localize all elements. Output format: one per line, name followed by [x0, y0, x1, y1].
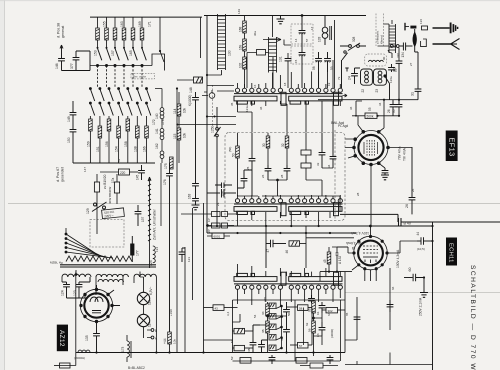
- cap 4,5: [308, 295, 315, 303]
- capacitor 31: [415, 52, 422, 100]
- antenna symbol fork: [433, 39, 460, 50]
- svg-text:d. Pos.38: d. Pos.38: [57, 23, 61, 38]
- IF box small boxes: [301, 133, 311, 180]
- mains rating box 420mA 200W: [102, 208, 125, 219]
- svg-text:B 40: B 40: [404, 222, 411, 226]
- rail x161 down: [160, 163, 162, 226]
- svg-text:19: 19: [327, 82, 331, 86]
- svg-text:66: 66: [391, 286, 395, 290]
- svg-text:26: 26: [387, 109, 391, 113]
- svg-text:10k: 10k: [183, 107, 187, 113]
- AF wires h: [253, 308, 322, 357]
- svg-text:23: 23: [375, 89, 379, 93]
- svg-text:40W BB30W: 40W BB30W: [108, 187, 112, 204]
- AF box 302: [322, 308, 345, 313]
- resistor 46 (100k): [289, 241, 306, 246]
- svg-text:00: 00: [382, 56, 386, 60]
- resistor chain 140/141/142: [155, 89, 164, 164]
- ECH11 internals: [363, 246, 378, 263]
- svg-text:320: 320: [396, 53, 400, 58]
- band switch upper: value labels: [94, 21, 152, 56]
- svg-text:102: 102: [239, 62, 243, 68]
- svg-text:(10,5): (10,5): [417, 247, 425, 251]
- svg-text:Ber. weite: Ber. weite: [133, 75, 147, 79]
- AF cap 50: [283, 302, 290, 318]
- svg-text:6001: 6001: [214, 235, 221, 239]
- resistor 40W: [94, 174, 99, 202]
- svg-text:55: 55: [368, 107, 372, 111]
- svg-text:151: 151: [96, 146, 100, 152]
- wire y271.6: [320, 272, 352, 281]
- svg-text:26: 26: [411, 188, 415, 192]
- IF box cap f: [330, 133, 337, 168]
- tube label box AZ12: [57, 325, 68, 352]
- svg-text:138: 138: [133, 146, 137, 152]
- output terminals A/B: [147, 329, 154, 339]
- svg-text:153: 153: [94, 50, 98, 56]
- RF wiring: [247, 15, 335, 88]
- svg-text:56: 56: [308, 328, 312, 332]
- svg-text:30: 30: [262, 143, 266, 147]
- bottom rail y361: [233, 360, 341, 362]
- svg-text:126a: 126a: [389, 76, 393, 83]
- svg-text:6,3V~: 6,3V~: [149, 286, 153, 295]
- svg-text:zu B19/20: zu B19/20: [103, 174, 107, 189]
- svg-text:32: 32: [281, 143, 285, 147]
- svg-text:124: 124: [61, 290, 65, 296]
- capacitor 149: [70, 101, 77, 129]
- EF13 internal electrodes: [364, 140, 378, 156]
- svg-text:136: 136: [419, 19, 423, 24]
- svg-text:2P: 2P: [207, 229, 211, 233]
- switch 328: [340, 43, 366, 51]
- dial lamp 117: [137, 314, 149, 326]
- svg-text:24: 24: [348, 76, 352, 80]
- svg-text:500k: 500k: [367, 114, 374, 118]
- svg-text:176: 176: [163, 179, 167, 185]
- svg-text:137: 137: [141, 216, 145, 222]
- capacitor 146: [58, 59, 65, 71]
- svg-text:34: 34: [378, 102, 382, 106]
- switch 126a: [384, 75, 390, 100]
- svg-text:17a: 17a: [117, 159, 121, 164]
- mains cable fan wires: [65, 202, 113, 258]
- svg-text:110V 4,3mA: 110V 4,3mA: [350, 231, 369, 235]
- AF box 53: [233, 328, 254, 333]
- strip1 upper stubs: [238, 57, 341, 88]
- capacitor 40 in rail: [398, 214, 500, 226]
- svg-text:48: 48: [247, 348, 251, 352]
- svg-text:133: 133: [318, 36, 322, 42]
- band switch upper: column 1: [96, 17, 102, 67]
- svg-text:165: 165: [129, 50, 133, 56]
- svg-text:1P: 1P: [207, 218, 211, 222]
- svg-text:63: 63: [316, 333, 320, 337]
- wire x356: [356, 101, 362, 116]
- capacitor 124: [62, 282, 70, 298]
- terminal strip 3 (socket strip bottom, mirrored): [234, 272, 343, 289]
- IF box resistor 20,2: [266, 133, 270, 165]
- capacitor 327: [396, 61, 403, 104]
- cap 58: [315, 52, 322, 72]
- resistor 55 (500k): [352, 113, 399, 118]
- svg-text:36: 36: [349, 106, 353, 110]
- band switch lower bank columns: [98, 66, 143, 89]
- svg-text:65: 65: [345, 312, 349, 316]
- EF13 pin wires: [345, 100, 412, 226]
- dashed note 1.Netzant: [376, 14, 384, 47]
- antenna ladder coil 130: [207, 14, 226, 75]
- svg-text:TIV 4mA: TIV 4mA: [403, 147, 407, 161]
- svg-text:166: 166: [143, 146, 147, 152]
- generator input arrow note: [57, 23, 66, 58]
- svg-text:145: 145: [136, 174, 140, 180]
- box 6001 lower: [207, 233, 230, 239]
- svg-text:+330: +330: [169, 309, 173, 316]
- IF can dashed box top: [365, 54, 387, 66]
- svg-text:55: 55: [308, 308, 312, 312]
- band switch upper: right hook contact: [147, 17, 201, 70]
- rail drop x207: [206, 16, 208, 234]
- band switch bank upper: bus wire: [90, 16, 202, 18]
- svg-text:45: 45: [323, 259, 327, 263]
- RF dashed box 57: [291, 24, 313, 44]
- wire to bank bottom: [62, 66, 91, 71]
- box (220): [100, 169, 138, 175]
- svg-text:(47): (47): [221, 191, 225, 196]
- cap 47: [266, 226, 286, 268]
- svg-text:26: 26: [405, 204, 409, 208]
- svg-text:177: 177: [136, 250, 140, 256]
- svg-text:150: 150: [67, 137, 71, 143]
- svg-text:18: 18: [283, 82, 287, 86]
- svg-text:20: 20: [394, 68, 398, 72]
- right vertical rail: [432, 222, 434, 370]
- svg-text:134: 134: [155, 247, 159, 252]
- IF box bottom wires: [250, 168, 340, 212]
- switch 329: [342, 51, 348, 88]
- svg-text:131: 131: [279, 56, 283, 62]
- svg-text:149: 149: [237, 9, 241, 14]
- cap 123a: [179, 248, 186, 262]
- terminal strip 2 (socket strip middle): [234, 199, 343, 216]
- svg-text:50: 50: [232, 153, 236, 157]
- lower bank column 6: [136, 88, 142, 164]
- svg-text:147: 147: [83, 167, 87, 172]
- AF box 52: [233, 345, 254, 350]
- antenna feed black block: [410, 26, 416, 29]
- svg-text:328: 328: [352, 36, 356, 42]
- lower bank column 2: [98, 88, 104, 164]
- svg-text:31: 31: [411, 92, 415, 96]
- svg-text:a55: a55: [263, 297, 267, 302]
- svg-text:62: 62: [305, 322, 309, 326]
- svg-text:129: 129: [86, 208, 90, 214]
- lightning arrester: [413, 29, 417, 52]
- wire y124.5: [177, 124, 236, 126]
- resistor +44: [168, 332, 172, 353]
- svg-text:125b: 125b: [211, 125, 215, 133]
- tuning arrow: [263, 38, 281, 42]
- svg-text:Klemd.: Klemd.: [380, 34, 384, 44]
- bottom long rail: [76, 352, 345, 354]
- svg-text:149: 149: [67, 116, 71, 122]
- svg-text:26: 26: [261, 174, 265, 178]
- terminal strip 1 (socket strip top): [234, 88, 343, 105]
- svg-text:141: 141: [155, 128, 159, 134]
- bottom edge box: [300, 363, 338, 368]
- resistor 175 on bus: [170, 157, 174, 169]
- cathode cap 7u6: [381, 168, 389, 180]
- svg-text:115: 115: [173, 133, 177, 139]
- svg-text:16: 16: [253, 84, 257, 88]
- svg-text:MZBL Hg: MZBL Hg: [50, 261, 63, 265]
- B+ rail y214: [340, 213, 398, 215]
- page fold faint line B: [345, 292, 500, 294]
- svg-text:158: 158: [124, 141, 128, 147]
- svg-text:33: 33: [316, 162, 320, 166]
- wire y238: [306, 226, 354, 268]
- B+ rail y226: [207, 225, 433, 227]
- svg-text:(300Ω): (300Ω): [330, 329, 334, 338]
- svg-text:171: 171: [148, 21, 152, 27]
- winding taps: [62, 270, 156, 353]
- resistor 148: [177, 77, 203, 83]
- IF small labels: [246, 162, 331, 178]
- strip3 lower stubs: [238, 289, 341, 307]
- wires from antenna block down: [378, 46, 400, 61]
- tube label box EF13: [446, 131, 458, 162]
- ECH11 pin wires: [332, 225, 417, 281]
- bottom cap row 2: [327, 355, 334, 364]
- left long rails: [177, 88, 204, 353]
- svg-text:117: 117: [148, 322, 152, 327]
- svg-text:100V 4,3mA: 100V 4,3mA: [396, 249, 400, 268]
- B+ rail y233: [207, 232, 356, 234]
- coil 133 with core: [322, 16, 331, 46]
- resistor 115 (10k): [177, 128, 181, 163]
- switch 125b: [214, 107, 221, 226]
- capacitor 26 (anode): [409, 147, 416, 214]
- svg-text:57: 57: [305, 38, 309, 42]
- capacitor 35: [396, 105, 403, 116]
- strip2 lower stubs: [238, 212, 331, 226]
- AF cap 63: [319, 322, 326, 336]
- AF cap 48: [250, 325, 260, 353]
- svg-text:22: 22: [361, 89, 365, 93]
- lower bank column 1: [89, 88, 95, 164]
- svg-text:172: 172: [152, 119, 156, 125]
- svg-text:A 132: A 132: [338, 256, 342, 264]
- capacitor 137: [135, 205, 142, 226]
- band switch upper: bottom bus: [90, 65, 147, 67]
- svg-text:73: 73: [337, 76, 341, 80]
- capacitor 135: [93, 334, 100, 353]
- coil on cable: [153, 246, 156, 263]
- antenna terminal T: [405, 23, 409, 31]
- svg-text:B: B: [155, 329, 157, 333]
- svg-text:377: 377: [70, 63, 74, 69]
- strip3 peg risers: [238, 264, 287, 276]
- capacitor 176: [166, 163, 173, 332]
- rectifier tube AZ12 circle: [80, 289, 112, 321]
- svg-text:302: 302: [328, 309, 333, 313]
- svg-text:168: 168: [239, 26, 243, 32]
- svg-text:36: 36: [259, 106, 263, 110]
- svg-text:123a: 123a: [245, 105, 249, 112]
- svg-text:10k: 10k: [183, 132, 187, 138]
- junction dots: [176, 124, 178, 126]
- band switch upper: column 3: [113, 17, 119, 67]
- capacitor 44: [417, 237, 433, 245]
- svg-text:+44: +44: [163, 338, 167, 344]
- wires bank to strip1: [204, 86, 234, 93]
- svg-text:52: 52: [230, 356, 234, 360]
- ground symbol (rotated page: bars vertical): [433, 23, 458, 34]
- resistor 177 (dark): [130, 236, 134, 262]
- IF box resistor 30,2: [285, 133, 289, 165]
- dashed note box (wave range): [131, 74, 155, 79]
- svg-text:14: 14: [294, 38, 298, 42]
- lower bank bottom bus: [90, 162, 155, 164]
- page fold faint line A: [8, 203, 500, 205]
- IF box cap c: [265, 165, 272, 180]
- AF cap 4,8: [258, 340, 267, 353]
- svg-text:47: 47: [266, 249, 270, 253]
- svg-text:148: 148: [189, 87, 193, 93]
- svg-text:163: 163: [120, 21, 124, 27]
- bottom wire right: [345, 364, 433, 366]
- svg-text:163: 163: [188, 193, 192, 199]
- dial lamp 116: [137, 292, 149, 304]
- capacitor 145: [138, 165, 145, 180]
- resistor 45: [327, 247, 331, 272]
- coupling boxes row 1: [181, 212, 236, 217]
- lamp wires: [140, 272, 144, 339]
- svg-text:15: 15: [294, 59, 298, 63]
- IF can top coil bumps: [369, 60, 384, 62]
- svg-text:61: 61: [316, 311, 320, 315]
- switch shaft dashed: [212, 85, 214, 127]
- capacitor 134: [399, 43, 412, 51]
- svg-text:220: 220: [120, 171, 126, 175]
- svg-text:AZ12: AZ12: [58, 330, 65, 347]
- IF box cap e: [319, 133, 326, 168]
- transformer winding bumps group 3: [134, 274, 156, 277]
- lower bank column 3: [107, 88, 113, 164]
- scattered value labels: [83, 9, 423, 326]
- svg-text:169: 169: [239, 44, 243, 50]
- bottom box row 1: [240, 358, 251, 364]
- lower bank value labels: [86, 119, 165, 152]
- AF resistor 54: [266, 302, 270, 353]
- wire rail x=75.8: [75, 272, 77, 366]
- svg-text:157: 157: [111, 50, 115, 56]
- svg-text:175: 175: [164, 163, 168, 169]
- lower bank column 4: [117, 88, 123, 164]
- svg-text:54: 54: [253, 314, 257, 318]
- svg-text:156: 156: [105, 141, 109, 147]
- capacitor 377: [73, 51, 90, 71]
- coupling boxes row 2: [207, 223, 235, 228]
- antenna coupling ladder coil: [384, 20, 396, 58]
- svg-text:78V 4mA: 78V 4mA: [398, 146, 402, 160]
- svg-text:3,4: 3,4: [226, 311, 230, 316]
- svg-text:140: 140: [155, 113, 159, 119]
- svg-text:B=BL ABC2: B=BL ABC2: [128, 366, 145, 370]
- AF box 58: [287, 305, 313, 311]
- svg-text:250V 2,1mA: 250V 2,1mA: [419, 297, 423, 316]
- svg-text:64: 64: [327, 312, 331, 316]
- AF cap 49: [283, 318, 290, 353]
- svg-text:146: 146: [55, 63, 59, 69]
- band switch upper: column 4: [122, 17, 128, 67]
- IF box cap d: [284, 165, 291, 180]
- svg-text:123: 123: [187, 257, 191, 262]
- terminal strip 1 arrow: [343, 94, 348, 97]
- dashed box mains: [90, 220, 124, 248]
- misc stub x357 cap: [354, 317, 361, 319]
- IF box contents: resistor 50: [236, 133, 250, 196]
- extra verticals: [295, 300, 341, 361]
- svg-text:17: 17: [310, 26, 314, 30]
- svg-text:gesendet: gesendet: [61, 167, 65, 182]
- strip3 upper stubs: [238, 266, 341, 276]
- svg-text:d. Pos.67: d. Pos.67: [56, 167, 60, 182]
- mains switch 129: [92, 202, 107, 212]
- svg-text:35: 35: [230, 102, 234, 106]
- svg-text:EF13: EF13: [448, 138, 457, 157]
- terminal T small: [345, 68, 348, 72]
- svg-text:46: 46: [285, 250, 289, 254]
- AF box 57: [290, 342, 312, 348]
- transformer winding bumps group 1: [62, 274, 91, 277]
- svg-text:130: 130: [228, 50, 232, 56]
- svg-text:58: 58: [312, 66, 316, 70]
- resistor BB 30W: [114, 174, 119, 204]
- svg-text:154: 154: [115, 146, 119, 152]
- strip1 lower stubs: [238, 101, 341, 133]
- ground at x300: [277, 16, 285, 24]
- AF cap 61: [319, 302, 326, 313]
- fuse 141 bottom left: [54, 363, 76, 368]
- tube label box ECH11: [446, 238, 457, 266]
- svg-text:159: 159: [86, 141, 90, 147]
- triode-hexode ECH11 circle: [354, 236, 388, 270]
- svg-text:27: 27: [409, 62, 413, 66]
- strip2 upper stubs: [238, 195, 341, 198]
- IF can right (coil 23): [374, 69, 387, 85]
- AF resistor 55b: [312, 300, 316, 321]
- svg-text:53: 53: [230, 339, 234, 343]
- transformer winding bumps group 2: [96, 274, 128, 277]
- svg-text:58: 58: [299, 306, 303, 310]
- svg-text:28: 28: [356, 192, 360, 196]
- svg-text:25: 25: [246, 166, 250, 170]
- bottom box row 2: [296, 358, 307, 364]
- capacitor 123: [76, 277, 90, 298]
- svg-text:45: 45: [351, 246, 355, 250]
- lower bank column 7: [145, 88, 151, 164]
- heater winding 173: [127, 335, 131, 362]
- tone switch contact ladder: [269, 303, 282, 351]
- band switch upper: column 6: [140, 17, 146, 67]
- bottom cap row 1: [269, 355, 276, 364]
- svg-text:(50): (50): [228, 147, 232, 152]
- svg-text:57: 57: [299, 344, 303, 348]
- svg-text:34: 34: [327, 164, 331, 168]
- misc cap at x390: [387, 300, 394, 312]
